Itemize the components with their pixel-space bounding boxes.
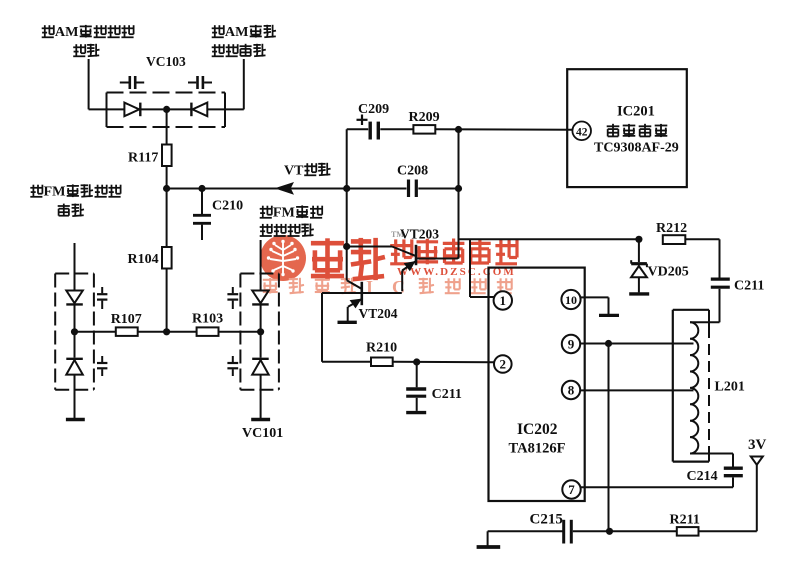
- label 微处理器: [607, 124, 668, 137]
- svg-text:VD205: VD205: [648, 265, 689, 280]
- svg-text:TC9308AF-29: TC9308AF-29: [594, 141, 679, 156]
- trimmer cap right top: [227, 287, 238, 309]
- svg-text:AM: AM: [55, 24, 79, 40]
- varactor box left dashed: [55, 274, 94, 390]
- varactor diode VC103 left: [124, 103, 163, 117]
- wire AM left lead: [88, 59, 90, 109]
- node C208 right: [455, 185, 462, 192]
- node left varactor: [71, 328, 78, 335]
- watermark 电子市场网 text: [390, 239, 517, 265]
- label 接AM本振 选频回路: [212, 24, 276, 56]
- trimmer capacitor left of VC103: [120, 76, 144, 89]
- wire pin9 to coil: [580, 343, 693, 345]
- svg-text:42: 42: [576, 126, 588, 138]
- node R209 right: [455, 126, 462, 133]
- svg-text:C210: C210: [212, 199, 243, 214]
- capacitor C211 right: [711, 279, 730, 322]
- svg-text:10: 10: [565, 293, 577, 307]
- transistor VT203: [347, 245, 459, 291]
- wire FM left lead: [74, 243, 76, 291]
- svg-text:R211: R211: [670, 513, 700, 528]
- pin 2 circle: [494, 355, 512, 373]
- svg-text:R210: R210: [366, 341, 397, 356]
- label 接AM高频选频 电路: [42, 24, 134, 56]
- svg-text:C211: C211: [734, 279, 764, 294]
- wire VT voltage line: [167, 188, 347, 190]
- svg-text:3V: 3V: [748, 437, 767, 453]
- node C210 tap: [198, 185, 205, 192]
- svg-text:R209: R209: [409, 110, 440, 125]
- svg-text:1: 1: [500, 293, 507, 308]
- label VT电压: [284, 163, 331, 179]
- node right varactor: [257, 328, 264, 335]
- ground right varactor: [251, 418, 270, 421]
- wire FM right lead: [260, 240, 262, 291]
- svg-text:VT204: VT204: [359, 306, 398, 321]
- capacitor C208: [347, 180, 459, 198]
- node VT203 collector tap: [343, 243, 350, 250]
- wire C211 to coil top: [690, 321, 720, 323]
- watermark 全球最大IC采购网站 text: [263, 277, 512, 297]
- pin 8 circle: [562, 381, 580, 399]
- node VC103 center: [163, 106, 170, 113]
- svg-text:R103: R103: [192, 312, 223, 327]
- svg-text:FM: FM: [273, 205, 295, 221]
- svg-text:C211: C211: [432, 387, 462, 402]
- wire bottom rail: [488, 531, 757, 545]
- inductor shield box L201: [673, 310, 709, 462]
- node R210 C211 tap: [413, 358, 420, 365]
- pin 9 circle: [562, 335, 580, 353]
- node bottom rail: [606, 528, 613, 535]
- wire pin9 node down to bottom rail: [608, 344, 610, 532]
- zener diode VD205: [631, 239, 647, 292]
- svg-text:IC202: IC202: [517, 421, 558, 438]
- wire coil bottom to C214: [690, 454, 733, 467]
- svg-text:VC101: VC101: [242, 426, 283, 441]
- varactor box VC101 dashed: [240, 274, 279, 390]
- capacitor C209: [347, 122, 414, 140]
- pin 10 circle: [561, 290, 580, 309]
- resistor R209: [413, 125, 572, 134]
- wire vertical R209-C208-VT203: [458, 130, 460, 259]
- svg-text:8: 8: [568, 383, 575, 398]
- resistor R104: [162, 189, 172, 332]
- trimmer capacitor right of VC103: [188, 76, 212, 89]
- watermark logo circle: [260, 235, 306, 281]
- varactor diode left top: [66, 291, 83, 358]
- resistor R211: [677, 527, 699, 536]
- label 接FM高频 选频电路: [260, 205, 323, 237]
- wire vertical C209 branch: [346, 129, 348, 280]
- svg-text:7: 7: [568, 482, 575, 497]
- inductor L201 coil: [690, 322, 698, 453]
- capacitor C215: [564, 520, 572, 544]
- arrow on VT line pointing left: [276, 183, 293, 194]
- capacitor C210: [193, 189, 211, 241]
- IC202 box: [489, 268, 585, 501]
- pin 42 circle: [572, 122, 591, 141]
- svg-text:C215: C215: [530, 512, 563, 528]
- svg-text:R117: R117: [128, 151, 158, 166]
- svg-text:IC201: IC201: [617, 104, 655, 120]
- plus sign C209: [357, 115, 368, 126]
- svg-text:2: 2: [500, 357, 507, 372]
- svg-text:R212: R212: [656, 221, 687, 236]
- wire pin10 to ground: [581, 297, 609, 314]
- ground pin10: [599, 314, 619, 317]
- resistor R117: [162, 109, 172, 188]
- node center R104 bottom: [163, 328, 170, 335]
- trimmer cap left top: [97, 287, 107, 309]
- terminal 3V triangle: [751, 457, 763, 532]
- resistor R210: [322, 293, 494, 366]
- pin 1 circle: [494, 291, 512, 309]
- resistor R107: [75, 327, 167, 336]
- varactor diode right bottom: [252, 359, 269, 419]
- svg-text:R104: R104: [128, 252, 159, 267]
- resistor R212: [663, 235, 720, 277]
- ground VD205: [629, 292, 649, 295]
- label 接FM本振选频 回路: [30, 184, 120, 217]
- wire AM right lead: [243, 59, 245, 109]
- svg-text:L201: L201: [715, 380, 745, 395]
- node VD205 tap: [635, 236, 642, 243]
- svg-text:C208: C208: [397, 164, 428, 179]
- pin 7 circle: [562, 480, 580, 498]
- svg-text:VT: VT: [284, 164, 304, 179]
- capacitor C211 left: [406, 362, 426, 413]
- svg-text:9: 9: [568, 337, 575, 352]
- transistor VT204: [322, 280, 402, 321]
- IC201 box: [567, 69, 687, 187]
- varactor diode VC103 right: [170, 103, 225, 117]
- node VT line right: [343, 185, 350, 192]
- trimmer cap left bottom: [97, 356, 107, 376]
- wire pin8 to coil: [580, 389, 693, 391]
- capacitor C214: [724, 468, 743, 476]
- varactor box VC103 dashed: [107, 93, 226, 128]
- ground bottom rail: [477, 545, 501, 549]
- trimmer cap right bottom: [227, 356, 238, 376]
- resistor R103: [167, 327, 261, 336]
- wire R209 node to pin1 and R212 row: [459, 239, 639, 297]
- wire pin7 to C214: [581, 478, 733, 488]
- varactor diode right top: [252, 291, 269, 358]
- svg-text:FM: FM: [44, 184, 66, 200]
- varactor diode left bottom: [66, 359, 83, 419]
- watermark 维库 text: [311, 238, 385, 280]
- ground VT204: [338, 321, 357, 324]
- ground left varactor: [66, 418, 85, 421]
- svg-text:C214: C214: [687, 469, 718, 484]
- node pin9 branch: [605, 340, 612, 347]
- svg-text:R107: R107: [111, 312, 142, 327]
- svg-text:VC103: VC103: [146, 54, 186, 69]
- svg-text:AM: AM: [225, 24, 249, 40]
- svg-text:VT203: VT203: [400, 227, 439, 242]
- svg-text:TA8126F: TA8126F: [509, 441, 566, 457]
- node R117 bottom: [163, 185, 170, 192]
